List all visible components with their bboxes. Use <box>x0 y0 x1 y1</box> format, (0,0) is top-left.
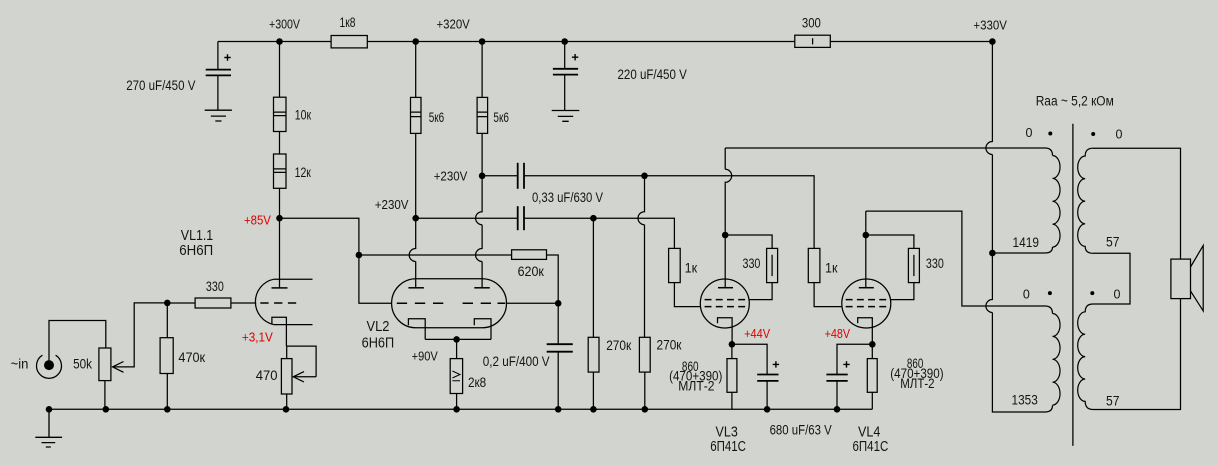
node C5 out dot <box>590 215 597 222</box>
ground under C2 <box>552 111 580 122</box>
node rail dot 470 <box>283 406 290 413</box>
resistor R 1k8 body <box>331 36 367 48</box>
tube VL3 anode lead with top wire <box>725 148 732 288</box>
node grid junction dot <box>164 300 171 307</box>
node VL2 right grid dot <box>555 300 562 307</box>
tube VL1.1 anode lead <box>279 218 281 288</box>
tube VL2 right cathode <box>474 319 491 340</box>
tube VL1.1 cathode <box>272 317 287 346</box>
svg-text:57: 57 <box>1106 393 1120 408</box>
tube VL4 anode lead <box>865 211 867 288</box>
ground rail bottom <box>49 408 872 410</box>
wire secondary2 bottom to speaker <box>1093 299 1181 410</box>
tube VL4 envelope circle <box>842 279 891 328</box>
svg-text:620к: 620к <box>518 264 544 279</box>
svg-text:330: 330 <box>926 256 944 271</box>
capacitor C6 plates <box>547 343 573 345</box>
svg-text:+230V: +230V <box>375 198 409 212</box>
wire R10k to R12k <box>279 132 281 155</box>
capacitor C8 plus sign <box>843 361 849 367</box>
resistor R 10k body <box>274 97 287 131</box>
node dot rail at 5k6 first <box>412 38 419 45</box>
wire C5 node to 1k VL3 grid <box>593 218 674 248</box>
resistor R 470k lead top <box>166 303 168 338</box>
resistor R 860 second lead top <box>871 344 873 358</box>
svg-text:+330V: +330V <box>973 18 1007 32</box>
node rail dot 2k8 <box>453 406 460 413</box>
tube VL2 right anode bar <box>474 287 490 289</box>
tube VL4 anode bar <box>859 287 874 289</box>
wire primary1 bottom to center node <box>992 247 1052 253</box>
wire VL2 right grid exit <box>507 302 559 304</box>
svg-text:+300V: +300V <box>269 17 301 31</box>
svg-text:330: 330 <box>743 256 761 271</box>
svg-text:470: 470 <box>256 368 278 383</box>
capacitor C2 lead bottom <box>564 75 566 111</box>
tube VL2 left cathode <box>408 319 425 340</box>
resistor R 270k second lead bottom <box>644 372 646 409</box>
wire C5 to node <box>524 217 593 219</box>
node dot 255 <box>356 252 363 259</box>
svg-text:470к: 470к <box>178 350 205 365</box>
resistor R 270k second body <box>639 337 650 372</box>
node +230V left dot <box>412 215 419 222</box>
svg-text:~in: ~in <box>11 357 29 372</box>
transformer T1 secondary winding 2 <box>1078 304 1093 410</box>
wire VL4 anode node to 330 top <box>866 235 914 248</box>
connector X1 center dot <box>44 360 54 370</box>
potentiometer R 470 top lead <box>286 346 288 359</box>
node rail dot C6 <box>555 406 562 413</box>
capacitor C7 lead bottom <box>766 381 768 409</box>
speaker body box <box>1171 259 1191 299</box>
wire secondary1 top to speaker <box>1093 148 1181 259</box>
resistor R 330 VL4 screen body <box>908 248 919 282</box>
tube VL4 cathode <box>858 318 873 345</box>
svg-text:6Н6П: 6Н6П <box>179 243 213 259</box>
tube VL4 control grid dashes <box>846 306 887 308</box>
svg-text:300: 300 <box>802 16 821 31</box>
wire VL4 screen to 330 <box>891 283 914 300</box>
wire +230V right node to C4 <box>482 175 518 177</box>
wire +330V rail down with hops <box>986 42 1053 413</box>
resistor R 10k lead top <box>279 42 281 98</box>
capacitor C2 plus sign <box>572 54 578 60</box>
svg-text:680 uF/63 V: 680 uF/63 V <box>770 423 832 438</box>
resistor R 330 grid stopper leads <box>167 302 195 304</box>
node VL3 anode dot <box>722 232 729 239</box>
wire 1k second to VL4 grid <box>814 283 842 307</box>
connector X1 input jack circle <box>37 355 62 378</box>
wire top rail middle segment <box>367 41 795 43</box>
svg-text:10к: 10к <box>295 107 311 122</box>
wire VL3 anode to transformer primary1 <box>725 148 1052 156</box>
node dot rail at 5k6 second <box>479 38 486 45</box>
capacitor C5 0.33uF plates <box>517 206 519 230</box>
tube VL3 anode bar <box>718 287 733 289</box>
svg-text:57: 57 <box>1106 234 1120 249</box>
svg-text:12к: 12к <box>295 165 311 180</box>
svg-text:0: 0 <box>1114 288 1121 302</box>
svg-text:0: 0 <box>1026 126 1033 140</box>
svg-text:1419: 1419 <box>1013 235 1040 250</box>
resistor R 1k first body <box>669 248 681 282</box>
svg-text:220 uF/450 V: 220 uF/450 V <box>618 67 687 82</box>
svg-text:0: 0 <box>1023 288 1030 302</box>
resistor R 5k6 first lead top <box>415 42 417 98</box>
svg-text:+85V: +85V <box>244 212 271 227</box>
resistor R 2k8 body <box>450 359 462 394</box>
capacitor C1 plus sign <box>224 54 230 60</box>
capacitor C1 270uF/450V lead top <box>217 42 219 70</box>
tube VL1.1 envelope top line <box>274 278 313 280</box>
tube VL3 control grid dashes <box>705 306 746 308</box>
svg-text:VL1.1: VL1.1 <box>181 228 213 244</box>
node rail dot 270k first <box>590 406 597 413</box>
transformer T1 core line <box>1072 124 1074 446</box>
resistor R 330 body <box>195 298 231 308</box>
svg-text:+90V: +90V <box>412 349 439 363</box>
capacitor C7 680uF plates <box>757 374 778 376</box>
wire top rail left segment <box>218 41 331 43</box>
tube VL2 envelope stadium <box>392 279 507 328</box>
resistor R 330 VL3 screen body <box>767 248 778 282</box>
svg-text:0,33 uF/630 V: 0,33 uF/630 V <box>532 190 603 205</box>
wire VL2 cathode bus <box>425 338 491 340</box>
phase dot secondary1 <box>1091 132 1095 136</box>
ground under C1 <box>205 110 232 121</box>
svg-text:6П41С: 6П41С <box>710 439 746 455</box>
resistor R 5k6 second lead top <box>481 42 483 98</box>
node rail dot C8 <box>834 406 841 413</box>
svg-text:5к6: 5к6 <box>429 110 445 125</box>
tube VL3 cathode <box>718 318 733 345</box>
resistor R 270k first lead top <box>592 218 594 337</box>
wire VL4 cathode to C8 <box>837 344 872 374</box>
wire VL3 cathode to C7 <box>732 344 767 374</box>
transformer T1 primary winding 2 <box>1053 314 1061 406</box>
svg-text:Raa ~ 5,2 кОм: Raa ~ 5,2 кОм <box>1036 93 1114 108</box>
tube VL1.1 grid dashes <box>260 302 297 304</box>
wire VL3 anode node to 330 top <box>725 235 772 248</box>
svg-text:МЛТ-2: МЛТ-2 <box>900 376 934 391</box>
wire +85V node to VL2 grid <box>280 218 359 255</box>
potentiometer R 50k wiper arrow <box>113 362 124 373</box>
wire 50k bottom to ground rail <box>104 381 106 410</box>
ground symbol at input <box>35 409 62 447</box>
svg-text:+3,1V: +3,1V <box>242 330 273 345</box>
svg-text:1к8: 1к8 <box>340 15 356 30</box>
resistor R 1k second body <box>808 248 820 282</box>
svg-text:5к6: 5к6 <box>493 110 509 125</box>
tube VL4 screen grid dashes <box>846 299 887 301</box>
resistor R 270k first body <box>588 337 599 372</box>
phase dot primary2 <box>1048 291 1052 295</box>
svg-text:50k: 50k <box>73 356 92 371</box>
svg-text:МЛТ-2: МЛТ-2 <box>678 378 714 393</box>
resistor R 270k second lead top with hop <box>638 176 645 337</box>
wire down to VL2 left grid <box>359 255 392 303</box>
svg-text:+320V: +320V <box>437 17 471 31</box>
wire 5k6 second to +230V right node <box>481 133 483 175</box>
resistor R 2k8 lead top <box>456 339 458 358</box>
node VL3 cathode dot <box>729 341 736 348</box>
node +330V dot <box>989 38 996 45</box>
resistor R 12k body <box>274 154 287 188</box>
svg-text:1к: 1к <box>825 260 838 275</box>
resistor R 860 first lead bottom <box>731 392 733 409</box>
wire VL2 left anode lead with hop <box>409 218 416 288</box>
potentiometer R 470 body <box>281 359 292 394</box>
wire VL4 anode to transformer primary2 <box>866 211 1053 313</box>
node rail dot 50k <box>103 406 110 413</box>
speaker horn <box>1191 246 1204 311</box>
tube VL2 left anode bar <box>408 287 424 289</box>
capacitor C7 plus sign <box>773 361 779 367</box>
resistor R 860 second body <box>867 359 877 393</box>
resistor R 620k body <box>512 250 547 260</box>
tube VL1.1 envelope bottom line <box>274 324 313 326</box>
phase dot primary1 <box>1048 132 1052 136</box>
svg-text:1353: 1353 <box>1012 392 1038 407</box>
wire input top <box>49 321 106 365</box>
svg-text:0: 0 <box>1116 127 1123 141</box>
wire 5k6 first to +230V node <box>415 133 417 218</box>
resistor R 860 first body <box>727 359 737 393</box>
svg-text:+44V: +44V <box>744 326 770 341</box>
tube VL2 grid dashes <box>397 302 506 304</box>
resistor R 2k8 lead bottom <box>456 394 458 410</box>
svg-text:+230V: +230V <box>434 170 468 184</box>
wire wiper horizontal <box>293 376 316 378</box>
wire R12k to +85V node <box>279 188 281 218</box>
capacitor C8 680uF plates <box>826 374 847 376</box>
resistor R 860 second lead bottom <box>871 392 873 409</box>
wire VL1.1 cathode to 470 pot <box>286 346 316 377</box>
wire 620k right to VL2 right grid <box>547 255 559 303</box>
wire VL2 right anode lead with two hops <box>476 176 482 288</box>
capacitor C6 lead bottom <box>557 352 559 410</box>
svg-text:270к: 270к <box>657 338 682 353</box>
node rail dot 270k second <box>642 406 649 413</box>
node +85V dot <box>276 215 283 222</box>
resistor R 270k first lead bottom <box>592 372 594 409</box>
svg-text:VL2: VL2 <box>367 319 390 335</box>
wire +230V left node to C5 <box>416 217 518 219</box>
resistor R 470k body <box>160 338 173 374</box>
svg-text:0,2 uF/400 V: 0,2 uF/400 V <box>483 354 550 369</box>
tube VL3 envelope circle <box>700 279 749 328</box>
tube VL1.1 anode bar <box>272 287 288 289</box>
svg-text:+48V: +48V <box>825 326 851 341</box>
node rail dot C7 <box>764 406 771 413</box>
node VL4 anode dot <box>863 232 870 239</box>
capacitor C2 plates <box>553 68 578 70</box>
capacitor C8 lead bottom <box>836 381 838 409</box>
tube VL3 screen grid dashes <box>705 299 746 301</box>
transformer T1 secondary winding 1 <box>1078 148 1093 253</box>
resistor R 470k lead bottom <box>166 374 168 410</box>
transformer T1 primary winding 1 <box>1053 156 1061 248</box>
wire 1k first to VL3 grid <box>674 283 700 307</box>
svg-text:270 uF/450 V: 270 uF/450 V <box>126 78 195 93</box>
svg-text:1к: 1к <box>685 260 698 275</box>
node dot rail at C2 <box>561 38 568 45</box>
node transformer center dot <box>989 250 996 257</box>
wire 620k feed <box>359 254 512 256</box>
wire top rail right segment <box>830 41 992 43</box>
wire C4 node to 1k VL4 grid <box>645 176 815 249</box>
resistor R 860 first lead top <box>731 344 733 358</box>
resistor R 5k6 second body <box>477 97 488 133</box>
svg-text:270к: 270к <box>606 338 631 353</box>
node C4 out dot <box>641 173 648 180</box>
potentiometer R 50k body <box>99 348 111 381</box>
capacitor C1 lead bottom <box>217 75 219 110</box>
resistor R 5k6 first body <box>411 97 422 133</box>
capacitor C4 0.33uF plates <box>517 163 519 189</box>
node +230V right dot <box>479 173 486 180</box>
svg-text:6Н6П: 6Н6П <box>362 336 395 352</box>
wire C4 to node <box>524 175 645 177</box>
potentiometer R 470 wiper arrow <box>293 372 304 382</box>
svg-text:2к8: 2к8 <box>468 375 486 390</box>
resistor R 300 body <box>795 35 831 47</box>
phase dot secondary2 <box>1090 291 1094 295</box>
wire VL3 screen to 330 <box>749 283 772 300</box>
svg-text:6П41С: 6П41С <box>853 439 889 455</box>
node VL2 cathode dot <box>453 336 460 343</box>
svg-text:330: 330 <box>206 279 224 294</box>
tube VL1.1 envelope arc <box>255 279 273 324</box>
capacitor C2 220uF lead top <box>564 42 566 69</box>
capacitor C1 plates <box>206 69 231 71</box>
node rail dot input <box>46 406 53 413</box>
wire 50k wiper to grid node <box>113 303 168 367</box>
wire secondary1 bottom to secondary2 top <box>1093 253 1130 304</box>
potentiometer R 470 bottom lead <box>286 394 288 409</box>
node rail dot 470k <box>164 406 171 413</box>
capacitor C6 0.2uF lead top <box>557 303 559 344</box>
node +300V dot <box>276 38 283 45</box>
node VL4 cathode dot <box>869 341 876 348</box>
